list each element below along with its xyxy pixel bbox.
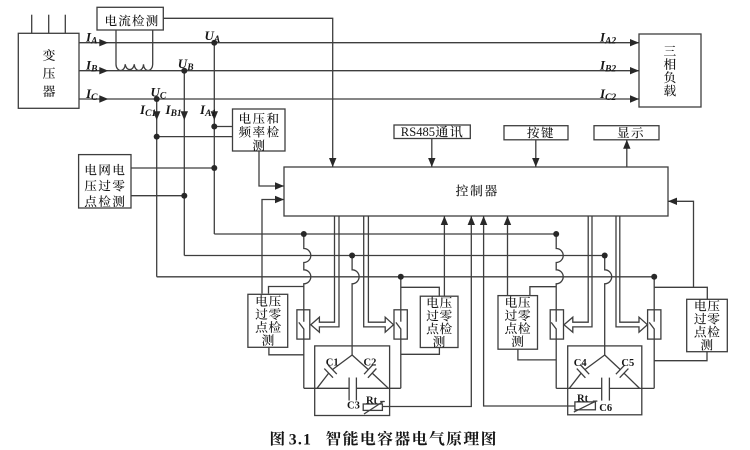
svg-text:C4: C4	[574, 358, 588, 369]
svg-text:C1: C1	[326, 357, 339, 368]
svg-text:Rt: Rt	[366, 396, 378, 407]
svg-text:C6: C6	[599, 403, 612, 414]
svg-text:C2: C2	[364, 357, 377, 368]
svg-text:C3: C3	[347, 400, 360, 411]
svg-text:Rt: Rt	[577, 393, 589, 404]
svg-text:3.1: 3.1	[289, 431, 312, 448]
svg-text:RS485: RS485	[401, 125, 435, 139]
svg-text:C5: C5	[621, 358, 634, 369]
